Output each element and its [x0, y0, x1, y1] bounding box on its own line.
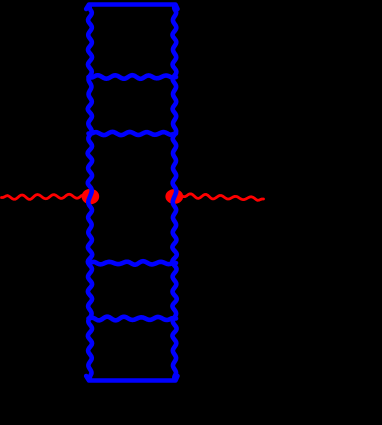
red wavy line left — [2, 194, 87, 199]
blue ladder rung 3 wavy line — [89, 261, 177, 264]
red wavy line right — [181, 194, 264, 200]
blue ladder rung 1 wavy line — [89, 75, 177, 79]
blue ladder rung 4 wavy line — [89, 317, 177, 321]
blue ladder top line — [86, 5, 177, 10]
blue ladder rung 2 wavy line — [89, 132, 177, 135]
blue ladder left vertical wavy line — [88, 6, 93, 380]
blue ladder right vertical wavy line — [172, 6, 176, 380]
blue ladder bottom line — [86, 376, 177, 381]
red dot right node — [165, 189, 183, 204]
red dot left node — [82, 189, 100, 204]
